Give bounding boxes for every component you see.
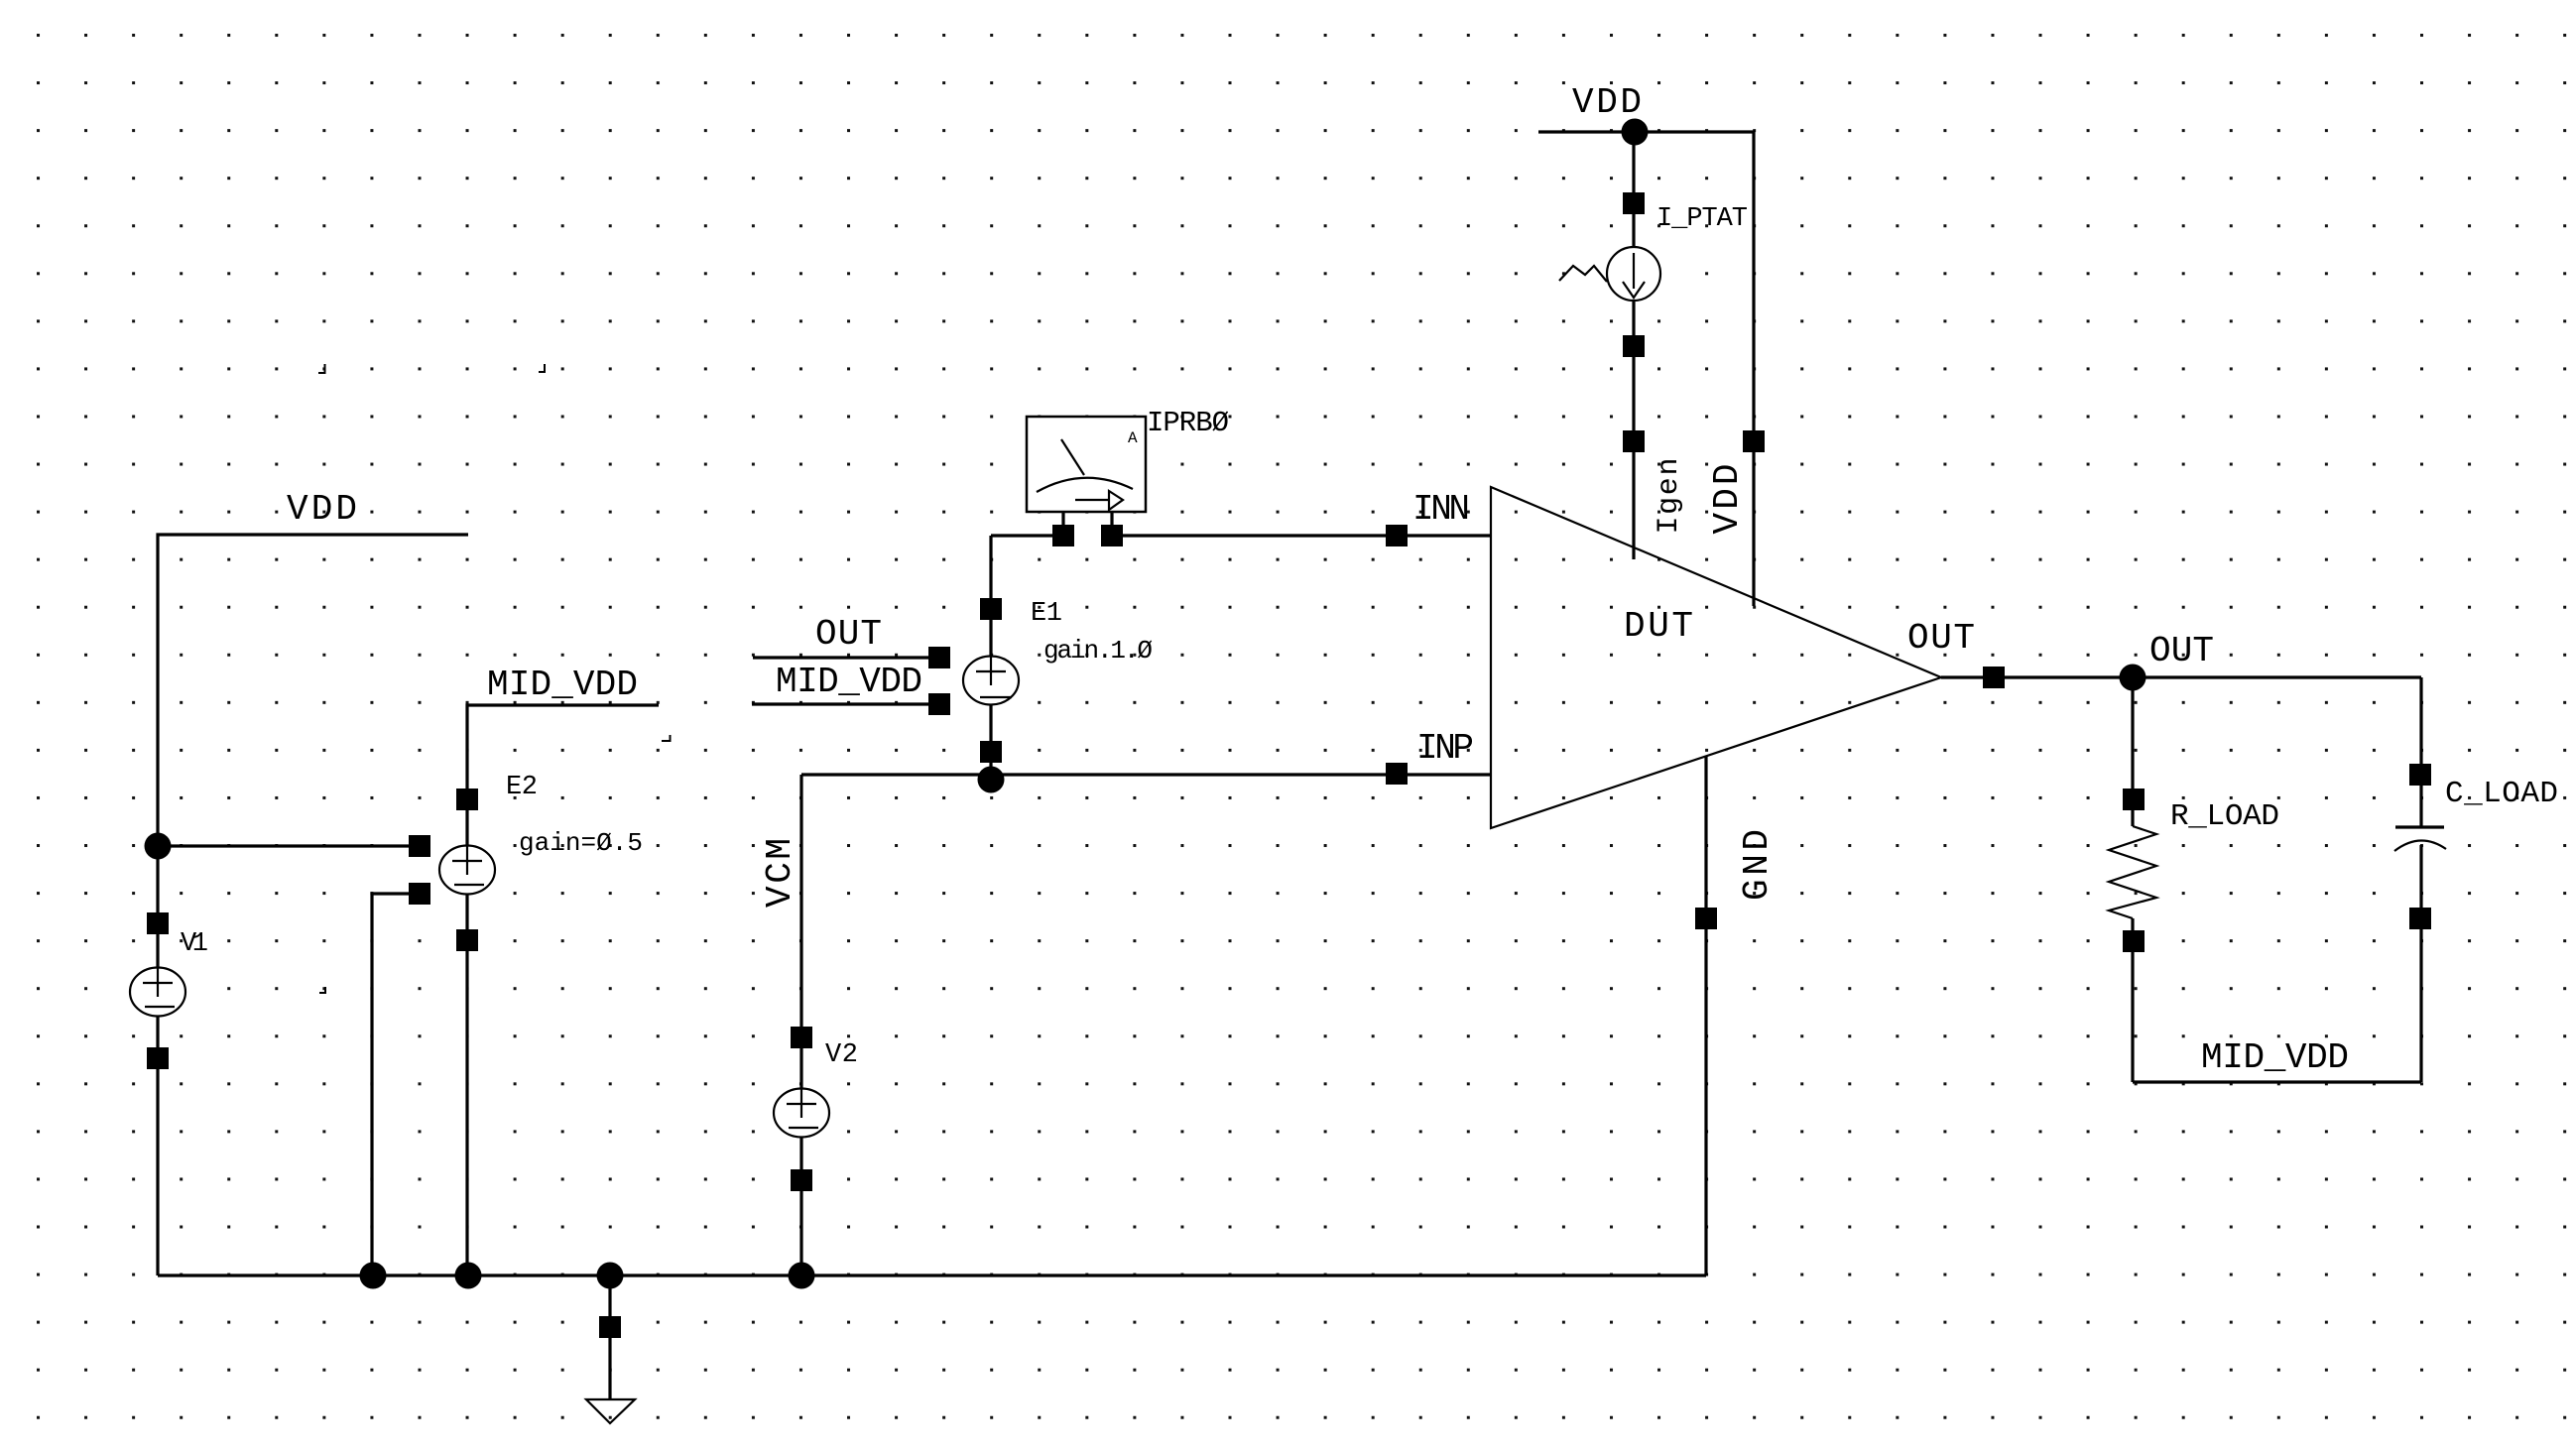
node bottom rail 2 [455,1263,482,1289]
pin V1 top [147,912,169,934]
svg-text:R_LOAD: R_LOAD [2170,799,2279,834]
wire MID_VDD rail into E1 [752,702,939,705]
svg-text:gain=Ø.5: gain=Ø.5 [519,828,643,858]
pin E2 out bottom [456,929,478,951]
node bottom rail 1 [360,1263,387,1289]
pin C_LOAD bottom [2409,908,2431,929]
svg-text:INN: INN [1412,489,1470,530]
voltage source V2 [774,1089,829,1138]
pin R_LOAD bottom [2123,930,2145,952]
svg-text:VCM: VCM [760,838,800,908]
pin E2 plus input [409,835,430,857]
svg-text:VDD: VDD [1572,82,1642,123]
wire bottom ground rail [158,1274,1706,1276]
op-amp DUT triangle [1491,487,1941,828]
origin marker 3 [319,987,325,993]
pin C_LOAD top [2409,764,2431,786]
svg-text:E2: E2 [506,773,538,802]
pin V2 top [791,1027,812,1048]
wire E2 minus input down to bottom rail [372,894,420,1275]
svg-text:Igen: Igen [1653,458,1686,535]
svg-text:I_PTAT: I_PTAT [1656,204,1748,234]
wire GND branch of DUT [1704,756,1707,1275]
wire VCM branch V2 [799,775,802,1275]
pin E1 out bottom [980,741,1002,763]
wire VDD top rail [1538,132,1754,606]
pin I_PTAT top [1623,192,1645,214]
wire VDD left rail and V1 branch [158,535,468,1275]
wire I_PTAT / Igen branch [1632,132,1635,559]
pin INP [1386,763,1408,785]
wire ground stem [608,1275,611,1399]
wire OUT rail into E1 [753,656,939,659]
pin INN [1386,525,1408,546]
pin E2 minus input [409,883,430,905]
resistor R_LOAD zigzag [2109,826,2156,918]
pin R_LOAD top [2123,789,2145,810]
wire V1 junction to E2 plus input [158,844,420,847]
pin E1 minus input [928,693,950,715]
pin ammeter left [1052,525,1074,546]
wire MID_VDD bottom right rail [2133,1080,2421,1083]
voltage source V1 [130,968,185,1017]
pin I_PTAT bottom [1623,335,1645,357]
origin marker 4 [662,735,671,741]
wire INP rail [801,773,1491,776]
ammeter IPRB0 box [1027,417,1146,512]
current source I_PTAT [1559,247,1660,301]
svg-text:DUT: DUT [1624,606,1693,647]
svg-text:GND: GND [1737,829,1778,901]
svg-text:A: A [1128,429,1138,447]
node V1/E2 [145,833,172,860]
pin ammeter right [1101,525,1123,546]
svg-text:V2: V2 [825,1040,858,1070]
node bottom rail V2 [789,1263,815,1289]
svg-text:C_LOAD: C_LOAD [2445,777,2558,811]
svg-text:MID_VDD: MID_VDD [487,665,638,705]
origin marker 1 [318,364,325,373]
ground [586,1399,635,1423]
svg-text:VDD: VDD [287,489,357,530]
pin E2 out top [456,789,478,810]
node bottom rail ground [597,1263,624,1289]
capacitor C_LOAD plates [2395,825,2444,828]
pin Igen [1623,430,1645,452]
vcvs E2 [439,846,495,895]
wire MID_VDD left rail and E2 output branch [467,705,659,1275]
pin GND of DUT [1695,908,1717,929]
node E1 INP [978,767,1005,793]
pin V1 bottom [147,1047,169,1069]
wire ammeter stubs [1063,498,1112,536]
svg-text:V1: V1 [181,929,208,959]
wire R_LOAD branch lower [2131,918,2134,1082]
pin VDD of DUT [1743,430,1765,452]
svg-text:MID_VDD: MID_VDD [2201,1037,2349,1078]
svg-text:OUT: OUT [2149,631,2214,671]
vcvs E1 [963,657,1019,705]
node VDD top [1622,119,1649,146]
svg-text:VDD: VDD [1707,464,1748,535]
wire ammeter right pin to INN [1112,534,1491,537]
node OUT [2120,665,2146,691]
pin E1 plus input [928,647,950,668]
svg-text:IPRBØ: IPRBØ [1147,407,1229,439]
pin OUT of DUT [1983,667,2005,688]
wire C_LOAD branch upper [2419,677,2422,827]
wire OUT of DUT [1941,675,2421,678]
wire corner to ammeter left pin [991,534,1063,537]
pin E1 out top [980,598,1002,620]
svg-text:INP: INP [1416,728,1474,769]
svg-text:OUT: OUT [815,614,882,655]
pin ground stem [599,1316,621,1338]
wire R_LOAD branch upper [2131,677,2134,826]
svg-text:E1: E1 [1031,599,1062,629]
svg-text:MID_VDD: MID_VDD [776,662,922,702]
svg-text:gain.1.Ø: gain.1.Ø [1043,636,1153,666]
origin marker 2 [539,364,545,372]
wire C_LOAD branch lower [2419,845,2422,1082]
wire E1 output branch [989,536,992,775]
pin V2 bottom [791,1169,812,1191]
svg-text:OUT: OUT [1907,618,1975,659]
